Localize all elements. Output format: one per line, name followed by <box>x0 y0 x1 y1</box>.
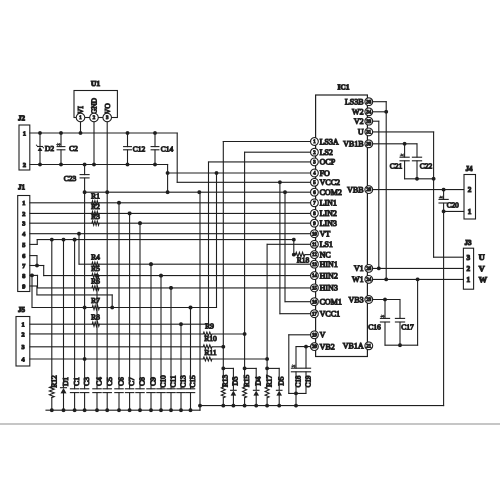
svg-text:20: 20 <box>312 345 317 350</box>
svg-text:LIN3: LIN3 <box>320 219 337 228</box>
IC1 pin 23 VB3 <box>348 295 372 304</box>
diode D1 <box>61 240 71 411</box>
svg-text:4: 4 <box>22 231 25 238</box>
IC1 pin 7 LIN1 <box>311 199 337 208</box>
svg-text:R2: R2 <box>91 202 100 211</box>
svg-text:C12: C12 <box>133 145 146 154</box>
svg-text:C15: C15 <box>188 375 197 388</box>
IC1 pin 31 U <box>358 128 373 137</box>
IC1 pin 11 LS1 <box>311 240 333 249</box>
IC1 pin 2 LS2 <box>311 148 333 157</box>
svg-text:COM2: COM2 <box>320 188 342 197</box>
resistor R1 <box>30 192 311 205</box>
IC1 pin 30 VB1B <box>343 140 373 149</box>
wire OCP column <box>209 162 311 324</box>
svg-text:C5: C5 <box>105 377 114 386</box>
svg-text:2: 2 <box>22 211 25 218</box>
svg-text:2: 2 <box>468 186 472 194</box>
svg-text:D5: D5 <box>276 376 285 385</box>
capacitor C12 <box>124 133 146 165</box>
IC1 pin 26 V1 <box>354 264 373 273</box>
wire LS2 column <box>243 152 311 370</box>
resistor R10 <box>30 334 224 349</box>
svg-text:15: 15 <box>312 287 317 292</box>
svg-text:C20: C20 <box>447 202 459 210</box>
svg-text:C17: C17 <box>401 323 414 332</box>
IC1 pin 33 V2 <box>354 117 373 126</box>
svg-text:U1: U1 <box>91 79 100 88</box>
svg-text:GND: GND <box>90 97 99 114</box>
svg-text:C4: C4 <box>95 377 104 386</box>
svg-text:R17: R17 <box>264 375 273 388</box>
IC1 pin 5 VCC2 <box>311 178 341 187</box>
capacitor C3 <box>80 192 91 410</box>
svg-text:D1: D1 <box>61 377 70 386</box>
svg-text:8: 8 <box>22 273 25 280</box>
svg-text:HIN3: HIN3 <box>320 284 338 293</box>
capacitor C5 <box>103 192 114 410</box>
voltage regulator U1 <box>74 79 117 122</box>
diode D3 <box>231 368 240 405</box>
svg-text:R4: R4 <box>91 253 100 262</box>
svg-text:C16: C16 <box>368 323 381 332</box>
wire VB2 net <box>296 345 311 369</box>
capacitor C6 <box>115 201 126 410</box>
resistor R5 <box>44 264 311 278</box>
svg-text:C14: C14 <box>161 145 174 154</box>
wire U1 pin1 lead <box>80 122 82 133</box>
wire HIN3 junctions <box>169 286 173 290</box>
svg-text:R11: R11 <box>204 348 216 357</box>
svg-text:5: 5 <box>22 242 25 249</box>
connector J3 <box>463 239 487 289</box>
wire J1.7 jog <box>30 266 44 276</box>
svg-text:VBB: VBB <box>347 185 363 194</box>
IC1 pin 34 W2 <box>352 108 373 117</box>
svg-text:3: 3 <box>467 254 471 262</box>
svg-text:1: 1 <box>467 276 471 284</box>
page divider line <box>0 423 500 425</box>
svg-text:R5: R5 <box>91 264 100 273</box>
wire V2 net <box>373 121 381 270</box>
svg-text:R6: R6 <box>91 276 100 285</box>
svg-text:1: 1 <box>21 322 24 329</box>
wire VCC2-VCC1 tie <box>280 182 311 313</box>
svg-text:HIN2: HIN2 <box>320 271 338 280</box>
svg-text:R7: R7 <box>91 296 100 305</box>
svg-text:C18: C18 <box>295 375 303 387</box>
svg-text:R8: R8 <box>91 313 100 322</box>
svg-text:NC: NC <box>320 250 331 259</box>
resistor R8 <box>30 313 209 327</box>
svg-text:10: 10 <box>312 232 317 237</box>
resistor R13 <box>221 368 230 405</box>
svg-text:R10: R10 <box>204 334 217 343</box>
capacitor C13 <box>177 322 188 410</box>
IC1 pin 36 LS3B <box>345 98 373 107</box>
wire ground bus <box>46 211 444 412</box>
capacitor C4 <box>93 274 104 411</box>
wire R7 row junctions <box>83 306 193 310</box>
capacitor C19 <box>301 347 312 394</box>
svg-text:COM1: COM1 <box>320 298 342 307</box>
svg-text:D2: D2 <box>45 144 54 153</box>
svg-text:1: 1 <box>22 200 25 207</box>
svg-text:W: W <box>479 274 488 284</box>
resistor R4 <box>79 234 311 267</box>
resistor R3 <box>30 212 311 225</box>
svg-text:4: 4 <box>21 356 24 363</box>
capacitor C17 <box>395 318 414 345</box>
svg-text:C10: C10 <box>159 375 168 388</box>
svg-text:U: U <box>479 252 485 262</box>
wire VB1B net <box>373 142 417 157</box>
svg-text:D4: D4 <box>253 376 262 385</box>
wire J1.8 jogs <box>30 274 38 308</box>
IC1 pin 19 V <box>311 331 326 340</box>
svg-text:14: 14 <box>312 274 317 279</box>
svg-text:J5: J5 <box>18 306 26 314</box>
wire J2.2 ground rail <box>30 163 311 195</box>
svg-text:VB2: VB2 <box>320 342 335 351</box>
IC1 pin 8 LIN2 <box>311 209 337 218</box>
wire R11 junctions <box>83 357 269 361</box>
capacitor C11 <box>167 286 178 410</box>
capacitor C10 <box>157 274 168 411</box>
wire FO column <box>216 173 218 308</box>
svg-text:2: 2 <box>23 162 26 169</box>
IC1 pin 16 COM1 <box>311 298 342 307</box>
IC1 pin 6 COM2 <box>311 188 342 197</box>
IC1 pin 20 VB2 <box>311 342 335 351</box>
svg-text:23: 23 <box>366 298 371 303</box>
svg-text:LIN2: LIN2 <box>320 209 337 218</box>
capacitor C9 <box>147 262 158 410</box>
svg-text:C3: C3 <box>82 377 91 386</box>
svg-text:VT: VT <box>320 230 331 239</box>
svg-text:28: 28 <box>366 188 371 193</box>
svg-text:C2: C2 <box>69 144 78 153</box>
svg-text:C7: C7 <box>127 377 136 386</box>
resistor R18 <box>294 240 311 265</box>
svg-text:J1: J1 <box>18 184 26 192</box>
wire J4.1 row <box>442 210 464 214</box>
wire VB3 net <box>373 298 400 319</box>
capacitor C14 <box>151 133 173 165</box>
svg-text:C11: C11 <box>169 375 178 387</box>
svg-text:W1: W1 <box>352 275 364 284</box>
svg-text:C22: C22 <box>420 162 433 171</box>
svg-text:D3: D3 <box>231 376 240 385</box>
wire J1.5 branch row <box>30 238 296 245</box>
connector J1 <box>18 184 30 292</box>
capacitor C16 <box>368 300 389 346</box>
wire J1.9 jog row <box>30 286 112 308</box>
IC1 pin 24 W1 <box>352 275 373 284</box>
svg-text:LS2: LS2 <box>320 148 333 157</box>
IC1 pin 28 VBB <box>347 185 373 194</box>
svg-text:R12: R12 <box>49 375 58 388</box>
wire COM1 feeder <box>283 190 311 301</box>
IC1 pin 1 LS3A <box>311 137 339 146</box>
IC1 pin 21 VB1A <box>343 342 373 351</box>
wire LS3B-W2 net <box>373 102 389 282</box>
svg-text:LS1: LS1 <box>320 240 333 249</box>
capacitor C7 <box>125 212 136 411</box>
wire U1 pin3 VO lead <box>106 122 108 192</box>
svg-text:1: 1 <box>468 208 472 216</box>
svg-text:VB1A: VB1A <box>343 342 364 351</box>
wire C21/C22 bottom <box>405 177 434 181</box>
resistor R9 <box>30 321 245 336</box>
zener diode D2 <box>36 133 54 165</box>
svg-text:1: 1 <box>23 130 26 137</box>
resistor R11 <box>30 348 267 361</box>
capacitor C21 <box>390 144 409 179</box>
svg-text:34: 34 <box>366 110 371 115</box>
svg-text:U: U <box>358 128 364 137</box>
capacitor C2 <box>57 133 79 165</box>
svg-text:V: V <box>320 331 326 340</box>
svg-text:R3: R3 <box>91 212 100 221</box>
svg-text:VCC2: VCC2 <box>320 178 340 187</box>
wire HIN2 junctions <box>95 274 163 278</box>
capacitor C15 <box>186 306 197 411</box>
resistor R7 <box>32 296 217 310</box>
svg-text:VB1B: VB1B <box>343 140 363 149</box>
wire V1 net <box>373 267 464 269</box>
svg-text:C23: C23 <box>64 174 77 183</box>
wire W1 net <box>373 278 464 346</box>
wire J2.1 supply rail <box>30 131 311 184</box>
svg-text:V: V <box>479 263 486 273</box>
svg-text:R15: R15 <box>242 375 251 388</box>
svg-text:C21: C21 <box>390 162 403 171</box>
svg-text:V1: V1 <box>354 264 364 273</box>
diode D5 <box>276 368 285 405</box>
IC IC1 motor driver <box>316 83 368 357</box>
IC1 pin 9 LIN3 <box>311 219 337 228</box>
svg-text:C1: C1 <box>72 377 81 386</box>
svg-text:30: 30 <box>366 142 371 147</box>
wire J1.4 to VT <box>30 232 311 236</box>
svg-text:R9: R9 <box>205 321 214 330</box>
svg-text:VCC1: VCC1 <box>320 310 340 319</box>
resistor R15 <box>242 368 251 405</box>
svg-text:17: 17 <box>312 312 317 317</box>
svg-text:9: 9 <box>22 283 25 290</box>
wire LIN row junctions <box>117 201 142 225</box>
wire LS3A column <box>221 142 310 371</box>
resistor R6 <box>38 276 311 290</box>
svg-text:16: 16 <box>312 300 317 305</box>
svg-text:11: 11 <box>312 243 317 248</box>
svg-text:J4: J4 <box>466 165 474 173</box>
svg-text:21: 21 <box>366 344 371 349</box>
resistor R2 <box>30 202 311 215</box>
svg-text:36: 36 <box>366 100 371 105</box>
wire NC feeder junction <box>292 253 296 257</box>
wire V pin19 net <box>289 335 311 396</box>
svg-text:26: 26 <box>366 267 371 272</box>
svg-text:VB3: VB3 <box>348 295 363 304</box>
svg-text:IC1: IC1 <box>337 83 349 92</box>
diode D4 <box>253 368 262 405</box>
wire U1 pin2 lead <box>93 122 95 165</box>
wire R10 junctions <box>221 345 225 349</box>
capacitor C1 <box>70 238 81 411</box>
IC1 pin 17 VCC1 <box>311 310 341 319</box>
svg-text:19: 19 <box>312 333 317 338</box>
IC1 pin 3 OCP <box>311 158 336 167</box>
resistor R17 <box>264 368 273 405</box>
svg-text:R13: R13 <box>221 375 230 388</box>
svg-text:R1: R1 <box>91 192 100 201</box>
svg-text:13: 13 <box>312 263 317 268</box>
wire COM2 row and column <box>83 190 311 410</box>
connector J5 <box>16 306 30 366</box>
wire C16/C17 bottom <box>385 343 418 347</box>
svg-text:33: 33 <box>366 120 371 125</box>
svg-text:LS3A: LS3A <box>320 137 339 146</box>
capacitor C20 <box>439 190 459 212</box>
svg-text:24: 24 <box>366 278 371 283</box>
svg-text:3: 3 <box>22 221 25 228</box>
resistor R12 <box>49 240 58 411</box>
capacitor C18 <box>291 365 302 406</box>
svg-text:OCP: OCP <box>320 158 336 167</box>
svg-text:LIN1: LIN1 <box>320 199 337 208</box>
svg-text:3: 3 <box>21 344 24 351</box>
svg-text:6: 6 <box>22 253 25 260</box>
svg-text:7: 7 <box>22 263 25 270</box>
svg-text:31: 31 <box>366 131 371 136</box>
svg-text:C19: C19 <box>305 375 313 387</box>
svg-text:C6: C6 <box>117 377 126 386</box>
wire U net <box>373 132 464 257</box>
capacitor C8 <box>136 221 147 410</box>
svg-text:VO: VO <box>103 103 112 114</box>
IC1 pin 12 NC <box>311 250 331 259</box>
IC1 pin 14 HIN2 <box>311 271 338 280</box>
svg-text:LS3B: LS3B <box>345 98 364 107</box>
svg-text:C13: C13 <box>179 375 188 388</box>
wire HIN1 junctions <box>149 262 153 266</box>
IC1 pin 10 VT <box>311 230 331 239</box>
capacitor C22 <box>412 157 432 179</box>
IC1 pin 13 HIN1 <box>311 260 338 269</box>
svg-text:FO: FO <box>320 169 330 178</box>
connector J2 <box>18 115 30 171</box>
svg-text:C8: C8 <box>138 377 147 386</box>
svg-text:12: 12 <box>312 253 317 258</box>
capacitor C23 <box>64 165 89 193</box>
svg-text:C9: C9 <box>149 377 158 386</box>
wire R9 junctions <box>243 332 247 336</box>
wire J1.6 jog <box>30 256 39 268</box>
svg-text:J3: J3 <box>465 239 473 247</box>
IC1 pin 4 FO <box>311 169 331 178</box>
svg-text:J2: J2 <box>18 115 26 123</box>
wire VBB net <box>373 188 464 192</box>
svg-text:W2: W2 <box>352 108 364 117</box>
svg-text:HIN1: HIN1 <box>320 260 338 269</box>
svg-text:2: 2 <box>21 331 24 338</box>
svg-text:R18: R18 <box>297 256 310 265</box>
IC1 pin 15 HIN3 <box>311 284 338 293</box>
connector J4 <box>464 165 476 219</box>
svg-text:V2: V2 <box>354 117 364 126</box>
wire LS1 column <box>265 244 310 370</box>
svg-text:2: 2 <box>467 265 471 273</box>
